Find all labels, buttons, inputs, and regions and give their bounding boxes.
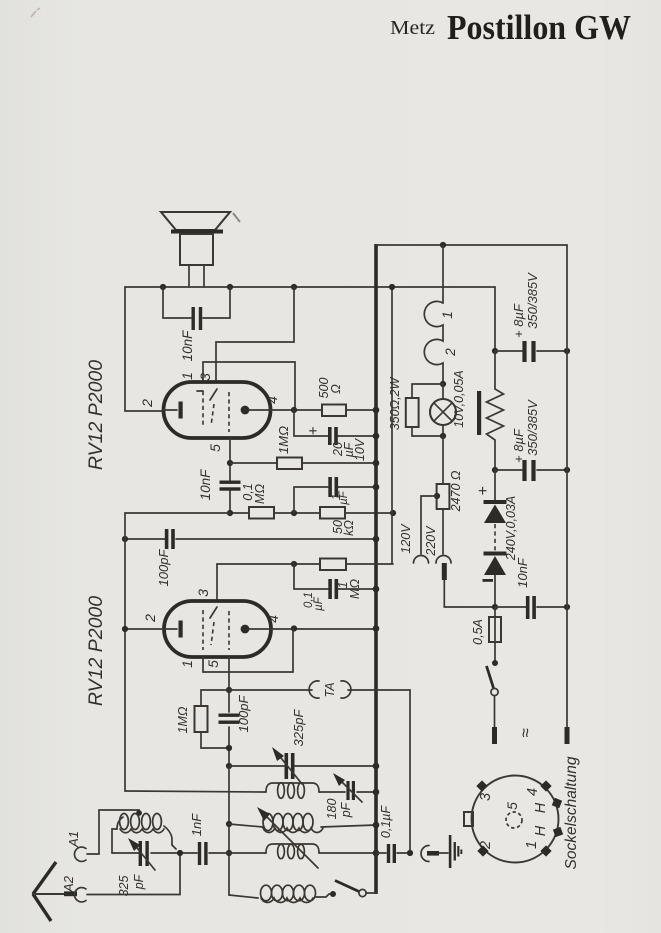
capacitor 0.1uF coupling plates (328, 579, 332, 599)
terminal 120V socket arc (414, 556, 429, 563)
arrow 325pF gang2 (277, 753, 302, 784)
node y564 x294 (291, 561, 297, 567)
scan speck top-left (31, 8, 40, 17)
wire riser x393 (391, 287, 393, 564)
wire to ground (439, 852, 448, 854)
wire to mains pin left (494, 696, 496, 728)
svg-text:pF: pF (339, 801, 353, 818)
switch S1 pivot circle (359, 889, 366, 896)
terminal A1 socket arc (74, 847, 86, 861)
wire x125 left rail (124, 513, 126, 791)
capacitor 0.1uF earth plates (387, 844, 390, 863)
socket pin 1 square (540, 845, 551, 856)
node bus y539 (373, 536, 380, 543)
wire x229 bottom corner to coil D (229, 895, 258, 898)
svg-text:1MΩ: 1MΩ (276, 426, 291, 454)
urdox resistor zigzag (487, 351, 504, 470)
resistor 500 Ohm (322, 405, 346, 417)
wire 1M row y463 (230, 462, 376, 464)
wire antenna lead (33, 893, 64, 895)
svg-text:5: 5 (205, 660, 221, 668)
coil L-A bandfilter (266, 783, 319, 792)
terminal earth socket arc (421, 846, 429, 862)
svg-text:A1: A1 (66, 831, 81, 848)
rectifier minus sign (483, 579, 494, 582)
capacitor 180pF plates (346, 781, 349, 800)
tube V2 grid1 dashed (202, 610, 204, 650)
wire row y853 coil C (229, 852, 376, 854)
svg-text:10nF: 10nF (198, 469, 213, 501)
capacitor 8uF no1 plates (522, 341, 526, 362)
svg-text:µF: µF (313, 596, 325, 611)
rectifier D2 (484, 552, 507, 556)
antenna tank left wire (112, 829, 117, 853)
rectifier dashed link (494, 524, 496, 551)
svg-text:H: H (533, 825, 549, 836)
rectifier D1 (494, 470, 496, 500)
capacitor 100pF plates V2 (219, 714, 240, 717)
svg-text:4: 4 (525, 788, 541, 796)
svg-text:5: 5 (207, 444, 223, 452)
svg-text:4: 4 (264, 396, 280, 404)
mains plug pin 220V (442, 563, 447, 580)
tube V2 RV12P2000 envelope (164, 601, 271, 657)
svg-text:5: 5 (504, 802, 520, 810)
svg-text:1: 1 (179, 660, 195, 668)
wire speaker lead left (188, 265, 190, 287)
wire tube1 pin5 drop (229, 438, 231, 513)
wire V2 pin3 riser (216, 564, 218, 601)
ground symbol (449, 835, 452, 868)
wire plug pin down to y607 (444, 580, 495, 607)
tube V2 anode (241, 625, 250, 634)
capacitor 20uF plates (328, 427, 332, 445)
wire coil D to switch (315, 894, 333, 897)
right rail (566, 245, 568, 727)
wire dropper to 220V socket (442, 509, 444, 554)
svg-text:4: 4 (265, 615, 281, 623)
svg-text:1nF: 1nF (189, 813, 204, 836)
resistor 1M Ohm V1 grid (277, 458, 302, 470)
tube V2 cathode (125, 628, 177, 630)
svg-text:Metz: Metz (390, 17, 435, 39)
socket pin H upper square (552, 798, 562, 808)
node x125 y629 (122, 626, 128, 632)
wire tube1 pin3 riser (216, 287, 294, 382)
node bus y792 (373, 789, 380, 796)
node heater top (440, 242, 446, 248)
switch S2 mains dot (492, 660, 498, 666)
node anode junction (291, 407, 297, 413)
svg-text:0,1µF: 0,1µF (379, 805, 393, 839)
svg-text:2470 Ω: 2470 Ω (449, 470, 463, 512)
arrow variometer (262, 812, 318, 868)
svg-text:Sockelschaltung: Sockelschaltung (563, 756, 580, 869)
switch S1 blade (335, 881, 359, 892)
antenna plug bar (64, 891, 77, 896)
svg-text:2: 2 (139, 399, 155, 408)
node right rail y470 (564, 467, 570, 473)
node tube1 grid riser on B+ (291, 284, 297, 290)
svg-text:2: 2 (478, 841, 494, 850)
coil L-B variometer (263, 814, 273, 831)
capacitor 10nF speaker plates (192, 307, 195, 330)
switch S1 contact dot (330, 891, 336, 897)
tube V1 grid2 dashed (210, 389, 217, 400)
svg-text:+ 8µF: + 8µF (511, 428, 526, 463)
svg-text:+: + (305, 426, 322, 435)
speaker LS cone (161, 212, 230, 230)
node lamp top (440, 381, 446, 387)
resistor 2470 Ohm dropper (437, 484, 450, 509)
node bus y825 (373, 822, 380, 829)
wire cap row y470 (495, 469, 567, 471)
svg-text:120V: 120V (399, 523, 413, 554)
wire row y825 variometer (229, 824, 376, 827)
tube V1 grid3 dashed (228, 392, 230, 432)
svg-text:H: H (533, 802, 549, 813)
heater winding bumps (424, 301, 443, 384)
earth plug bar (427, 851, 439, 856)
coil L-ant (117, 817, 123, 829)
node bus y487 (373, 484, 380, 491)
resistor 350 Ohm 2W shunt (412, 384, 443, 436)
wire heater column top (442, 245, 444, 303)
node bus y766 (373, 763, 380, 770)
svg-text:180: 180 (325, 799, 339, 820)
socket pin 4 square (540, 780, 551, 791)
capacitor 325pF gang2 plates (285, 753, 289, 779)
capacitor 10nF mains plates (526, 596, 530, 619)
arrow 325pF antenna (133, 843, 155, 870)
capacitor 1nF plates (198, 842, 201, 865)
wire row y607 (495, 606, 567, 608)
node x410 y853 (407, 850, 413, 856)
tube V2 grid3 dashed (228, 611, 230, 650)
fuse 0,5A (494, 607, 496, 663)
wire 1uF branch (294, 487, 376, 513)
svg-text:RV12 P2000: RV12 P2000 (85, 596, 107, 706)
node y607 (492, 604, 498, 610)
wire x229 down (228, 766, 230, 895)
resistor 1M Ohm detector (320, 559, 346, 571)
wire rectifier to y607 (494, 575, 496, 607)
node x125 y539 (122, 536, 128, 542)
socket pin H lower square (553, 827, 563, 837)
node bus y463 (373, 460, 380, 467)
svg-text:≈: ≈ (516, 728, 535, 738)
svg-text:3: 3 (195, 589, 211, 597)
svg-text:µF: µF (338, 490, 350, 505)
svg-text:1: 1 (179, 372, 195, 380)
svg-text:10V: 10V (353, 437, 367, 461)
socket center pin 5 dashed circle (506, 812, 522, 828)
node bus y436 (373, 433, 380, 440)
node speaker right (227, 284, 233, 290)
svg-text:TA: TA (323, 682, 337, 697)
wire V2 base loop pin1 to pin4 (203, 629, 293, 672)
coil L-C bandfilter (266, 844, 319, 853)
node speaker left (160, 284, 166, 290)
svg-text:2: 2 (443, 348, 458, 357)
node antenna coil tap (136, 810, 142, 816)
svg-text:10nF: 10nF (515, 557, 530, 588)
svg-text:3: 3 (478, 793, 494, 801)
resistor 1M Ohm V2 (195, 706, 208, 732)
wire anode row y410 (271, 409, 376, 411)
wire switch to bus (366, 892, 376, 894)
node y513 x294 (291, 510, 297, 516)
node x392 on B+ (389, 284, 395, 290)
svg-text:220V: 220V (424, 525, 438, 557)
svg-text:Postillon GW: Postillon GW (447, 8, 631, 47)
switch S2 pivot circle (491, 688, 498, 695)
speaker magnet box (180, 234, 213, 265)
wire V2 pin5 drop (228, 657, 230, 690)
svg-text:325pF: 325pF (291, 709, 306, 747)
wire tap to 120V socket (421, 496, 437, 554)
svg-text:Ω: Ω (329, 384, 343, 394)
urdox resistor plate (477, 391, 481, 435)
wire cap row y351 (495, 350, 567, 352)
switch S2 blade (487, 666, 494, 688)
node bus y853 (373, 850, 380, 857)
antenna symbol (33, 862, 56, 921)
wire 10nF loop across speaker (163, 287, 230, 318)
svg-text:2: 2 (142, 614, 158, 623)
mains pin left (492, 727, 497, 744)
svg-text:350Ω,2W: 350Ω,2W (388, 377, 402, 431)
node y766 (226, 763, 232, 769)
svg-text:MΩ: MΩ (253, 484, 267, 504)
svg-text:pF: pF (132, 873, 146, 890)
terminal TA arcs (309, 681, 319, 698)
socket diagram circle (472, 776, 559, 863)
lamp pilot bulb (442, 384, 444, 436)
svg-text:3: 3 (197, 373, 213, 381)
node x229 y853 (226, 850, 232, 856)
node lamp bottom (440, 433, 446, 439)
wire row y513 left end corner (125, 512, 230, 514)
capacitor 8uF no2 plates (522, 460, 526, 481)
bus chassis rail (374, 244, 378, 894)
node y513 x393 (390, 510, 396, 516)
tube V1 cathode (163, 409, 177, 411)
coil L-D wavechange (261, 885, 272, 901)
svg-text:kΩ: kΩ (342, 520, 356, 536)
terminal 220V socket arc (436, 556, 451, 563)
node dropper tap (434, 493, 440, 499)
wire 100pF V2 anode branch (228, 690, 230, 766)
socket pin 3 square (476, 780, 487, 791)
wire 20uF branch (294, 410, 376, 436)
node V2 pin5 junction (226, 687, 232, 693)
capacitor 100pF V2 grid plates (165, 529, 169, 549)
svg-text:1MΩ: 1MΩ (176, 706, 190, 733)
resistor 50k Ohm (320, 507, 345, 519)
svg-text:240V,0,03A: 240V,0,03A (504, 496, 518, 561)
svg-text:350/385V: 350/385V (525, 272, 540, 329)
tube V2 grid2 dashed (210, 607, 217, 618)
svg-text:1: 1 (524, 841, 540, 849)
svg-text:+ 8µF: + 8µF (511, 303, 526, 338)
tube V1 RV12P2000 envelope (164, 382, 271, 438)
svg-text:+: + (475, 486, 492, 495)
node right rail y351 (564, 348, 570, 354)
node x230 y513 (227, 510, 233, 516)
wire row y513 (230, 512, 393, 514)
wire TA row y690 (229, 690, 410, 853)
tube V1 anode (241, 406, 250, 415)
svg-text:100pF: 100pF (156, 549, 171, 587)
node y748 (226, 745, 232, 751)
node bus y410 (373, 407, 380, 414)
speaker frame bar (171, 230, 223, 234)
svg-text:RV12 P2000: RV12 P2000 (85, 360, 107, 470)
resistor 0.1M Ohm (249, 507, 274, 519)
wire to dropper (442, 436, 444, 484)
wire row y792 coil A feed (125, 791, 376, 792)
svg-text:0,5A: 0,5A (471, 619, 485, 645)
wire earth row (376, 852, 410, 854)
svg-text:325: 325 (117, 876, 131, 897)
wire tube1 pin1 link to pin4 node (203, 362, 295, 410)
svg-text:A2: A2 (61, 875, 76, 893)
wire 1M parallel loop V2 (201, 690, 229, 748)
node pin5 y463 (227, 460, 233, 466)
wire A1 to coil tap (87, 810, 139, 854)
node bus y589 (373, 586, 380, 593)
wire A2 row (87, 853, 180, 895)
wire tank bottom (112, 845, 229, 853)
mains pin right (565, 727, 570, 744)
node smoothing cap top (492, 467, 498, 473)
wire left drop x125 to tube1 pin2 (125, 287, 163, 411)
wire row y766 tuning cap 2 (229, 765, 376, 767)
socket pin 2 square (477, 845, 488, 856)
node bus y629 (373, 625, 380, 632)
svg-text:350/385V: 350/385V (525, 399, 540, 456)
capacitor 10nF V1 pin5 plates (220, 481, 241, 484)
wire B+ feed corner x495 (494, 287, 496, 351)
svg-text:10nF: 10nF (180, 330, 195, 362)
capacitor 1uF plates (328, 477, 332, 497)
node V2 anode x294 (291, 625, 297, 631)
capacitor 325pF antenna plates (139, 841, 142, 866)
socket key tab (464, 812, 473, 826)
node x229 y825 (226, 821, 232, 827)
svg-text:10V,0,05A: 10V,0,05A (452, 370, 466, 427)
speaker scan tick (233, 213, 240, 222)
node right rail y607 (564, 604, 570, 610)
arrow 180pF (338, 778, 362, 802)
wire row y539 100pF grid V2 (125, 538, 376, 540)
wire 0.1uF branch (294, 564, 376, 589)
wire B+ rail y287 (125, 286, 495, 288)
node tank output (177, 850, 183, 856)
wire speaker lead right (203, 265, 205, 287)
wire top rail y245 (376, 244, 567, 246)
node reservoir cap top (492, 348, 498, 354)
wire row y564 grid2 (217, 563, 393, 565)
terminal A2 socket arc (74, 888, 86, 902)
svg-text:1: 1 (440, 311, 455, 319)
tube V1 grid1 dashed (202, 391, 204, 428)
svg-text:100pF: 100pF (236, 695, 251, 733)
